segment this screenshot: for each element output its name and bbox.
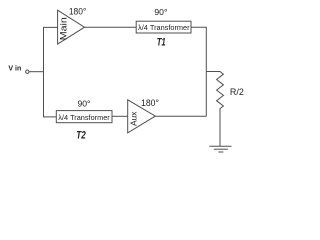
svg-text:90°: 90°: [154, 7, 167, 17]
svg-text:V in: V in: [8, 66, 21, 73]
svg-text:180°: 180°: [69, 6, 87, 17]
svg-text:90°: 90°: [78, 98, 91, 108]
svg-text:λ/4 Transformer: λ/4 Transformer: [138, 25, 190, 32]
svg-text:R/2: R/2: [230, 87, 244, 97]
svg-text:Main: Main: [59, 17, 69, 40]
svg-text:180°: 180°: [141, 98, 159, 109]
svg-text:T1: T1: [157, 36, 166, 48]
svg-text:T2: T2: [76, 130, 86, 142]
svg-text:Aux: Aux: [129, 111, 139, 126]
svg-text:λ/4 Transformer: λ/4 Transformer: [58, 115, 110, 122]
